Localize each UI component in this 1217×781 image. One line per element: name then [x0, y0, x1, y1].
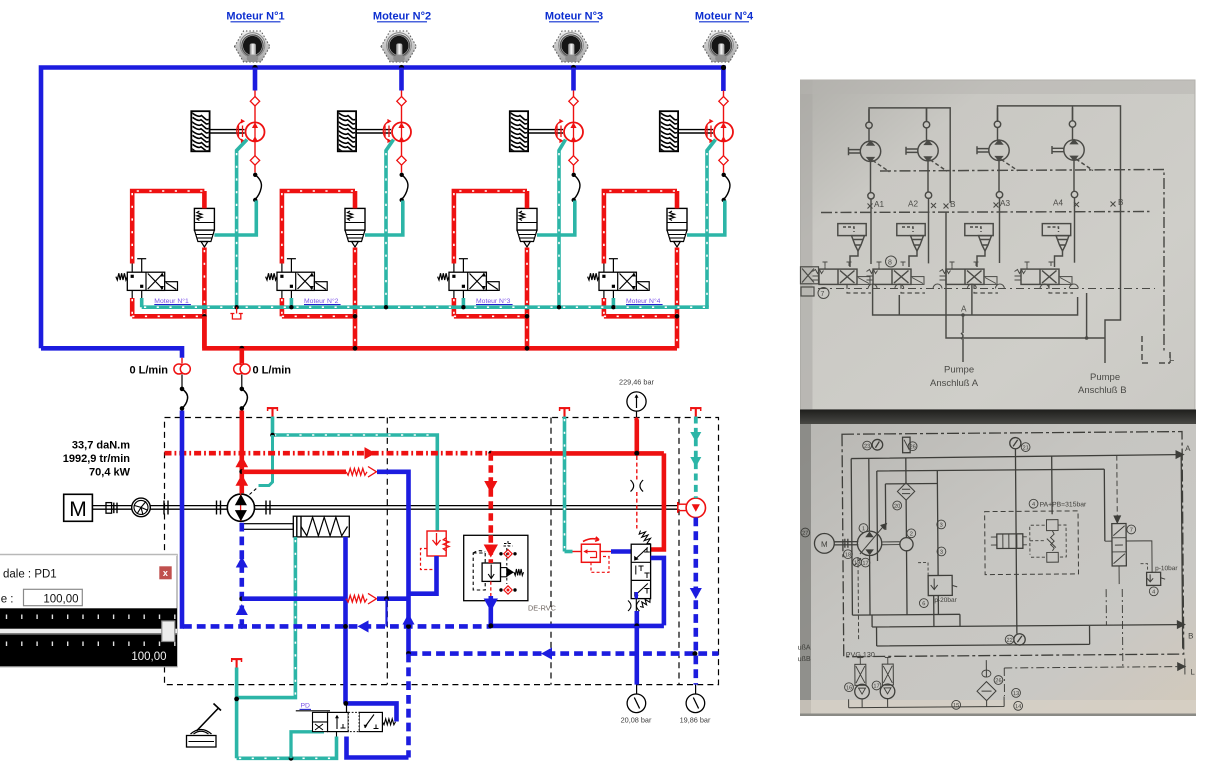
- spring check symbol 2: [346, 595, 367, 602]
- sequence valve SV1: [581, 544, 600, 562]
- hose to power unit left: [180, 387, 185, 392]
- wire red loop 2: [353, 191, 358, 208]
- node bus tap 3: [571, 65, 576, 70]
- p1 motors: [860, 141, 880, 161]
- svg-text:20: 20: [894, 504, 900, 510]
- tank symbol under teal bus: [236, 307, 238, 313]
- swivel joint 4: [722, 173, 726, 177]
- p2 right valve: [1112, 524, 1127, 567]
- wire teal return bus: [142, 305, 709, 309]
- wire blue stub 1: [253, 68, 258, 91]
- wire teal to counterbalance 1: [214, 201, 256, 236]
- hydraulic motor M2: [392, 122, 411, 141]
- svg-text:Pumpe: Pumpe: [1090, 372, 1120, 383]
- toggle switch SW3: [553, 31, 589, 62]
- wire teal pedal bottom: [237, 737, 337, 759]
- proportional valve bottom restrictor: [628, 601, 640, 612]
- tank T1: [267, 407, 278, 409]
- svg-text:M: M: [821, 540, 828, 549]
- p1 pump feeders: [961, 315, 963, 362]
- toggle switch SW2: [381, 31, 417, 62]
- flow meter FM1: [181, 358, 183, 364]
- svg-text:ußA: ußA: [798, 644, 811, 651]
- p1 top rails: [869, 106, 1121, 203]
- wire blue return dashed: [183, 624, 491, 629]
- p2 bottom pumps: [855, 664, 866, 685]
- check valve diamond top 1: [250, 97, 259, 106]
- photo 1 schematic scan: [801, 80, 1196, 410]
- svg-text:7: 7: [821, 291, 825, 298]
- proportional valve spring top: [639, 531, 650, 544]
- hydraulic motor M4: [714, 122, 733, 141]
- spring check symbol 1: [346, 468, 367, 475]
- check valve diamond top 2: [397, 97, 406, 106]
- p2 p10 valve: [1147, 572, 1161, 585]
- svg-text:Anschluß B: Anschluß B: [1078, 385, 1127, 396]
- photo 2 schematic scan: [800, 410, 1196, 425]
- wire blue stub 2: [399, 68, 404, 91]
- gauge G3 19,86 bar: [695, 685, 697, 694]
- node bus tap 2: [399, 65, 404, 70]
- wire teal motor drain 1: [237, 140, 247, 308]
- wire teal valve stub 3: [462, 298, 466, 307]
- p2 p20 valve: [928, 575, 952, 595]
- wire teal to counterbalance 4: [687, 201, 725, 236]
- svg-text:p-20bar: p-20bar: [934, 597, 957, 604]
- svg-text:A2: A2: [908, 200, 918, 209]
- wire red sequence out: [600, 551, 612, 553]
- wire blue compensator out: [488, 596, 493, 625]
- svg-text:PVG 130: PVG 130: [846, 650, 875, 659]
- svg-text:B: B: [950, 200, 956, 209]
- axle shaft 3: [528, 129, 563, 131]
- p1 texts: [818, 198, 1174, 396]
- compensator spool: [482, 563, 500, 581]
- directional valve DV3: [453, 264, 455, 299]
- svg-text:A: A: [961, 305, 967, 314]
- wire teal tank column 2: [563, 417, 567, 552]
- power unit dashed enclosure: [165, 418, 719, 685]
- tachometer: [132, 498, 151, 517]
- svg-text:23: 23: [864, 444, 870, 450]
- wire red counterbalance down 1: [202, 248, 207, 349]
- wire red counterbalance down 2: [353, 248, 358, 349]
- wire blue boost line: [242, 596, 346, 601]
- p2 center block: [985, 511, 1079, 575]
- compensator pilot diamonds: [504, 550, 512, 558]
- wire red gauge riser: [634, 420, 639, 454]
- dialog slider: [0, 608, 177, 666]
- wire blue feed left: [41, 348, 182, 358]
- dialog window Pedale PD1: [0, 555, 177, 667]
- rotation indicator 2: [384, 126, 386, 138]
- svg-text:A4: A4: [1053, 199, 1063, 208]
- wire teal valve stub 4: [612, 298, 616, 307]
- compensator block DE-RVC: [464, 535, 528, 600]
- wire red loop 4: [675, 191, 680, 208]
- svg-text:8: 8: [888, 260, 892, 267]
- wire blue relief link: [377, 472, 409, 654]
- p2 L drain dashdot: [1004, 589, 1178, 696]
- p2 rail A: [851, 455, 1177, 616]
- p1 center dashdot line: [821, 212, 1150, 213]
- svg-text:4: 4: [1032, 502, 1035, 508]
- hydraulic motor M1: [246, 122, 265, 141]
- svg-text:Pumpe: Pumpe: [944, 365, 974, 376]
- wire red compensator through: [488, 535, 493, 563]
- tank T2: [559, 407, 570, 409]
- wire blue valve drain: [635, 592, 638, 599]
- counterbalance valve CB4: [667, 208, 687, 230]
- directional valve DV1: [131, 264, 133, 299]
- wire red loop 3: [525, 191, 530, 208]
- orifice restrictor: [631, 480, 644, 492]
- rotation indicator 1: [238, 126, 240, 138]
- wire red motor feed 3: [573, 91, 575, 123]
- wire blue stub 3: [571, 68, 576, 91]
- counterbalance valve CB2: [345, 208, 365, 230]
- swivel joint 1: [253, 173, 257, 177]
- wire red to relief spring line: [242, 469, 346, 474]
- p1 B columns: [946, 202, 1121, 363]
- enclosure partition 1: [386, 418, 388, 685]
- tank T4 pedal line: [231, 658, 242, 660]
- hydraulic motor M3: [564, 122, 583, 141]
- wire blue pedal bottom: [347, 737, 409, 758]
- wire blue partition stub: [385, 599, 387, 627]
- svg-text:3: 3: [940, 550, 943, 556]
- p2 filter: [897, 483, 915, 501]
- p2 gauges top: [872, 439, 883, 450]
- blue riser arrow: [402, 614, 414, 625]
- wire blue sequence to valve: [611, 549, 631, 554]
- svg-text:A3: A3: [1000, 199, 1010, 208]
- wire blue load return dashed: [693, 518, 698, 685]
- p1 drain wavy line: [818, 288, 1155, 290]
- axle shaft 4: [678, 129, 713, 131]
- wire blue cylinder right: [343, 537, 348, 704]
- p1 collector lines: [873, 284, 1087, 338]
- p1 upper dashdot line: [880, 170, 1164, 353]
- wire blue pilot return dashed: [409, 651, 719, 656]
- svg-text:3: 3: [940, 523, 943, 529]
- wire teal valve stub 2: [290, 298, 294, 307]
- svg-text:6: 6: [922, 601, 925, 607]
- wire blue left riser: [182, 411, 184, 627]
- tank T3: [690, 407, 701, 409]
- svg-text:17: 17: [873, 684, 879, 690]
- svg-text:7: 7: [1130, 528, 1133, 534]
- wire teal pump case drain: [259, 435, 273, 486]
- wire red to valve right: [651, 453, 664, 549]
- variable pump P1: [240, 411, 245, 494]
- svg-text:A1: A1: [874, 200, 884, 209]
- axle shaft 1: [210, 129, 245, 131]
- wire teal motor drain 3: [559, 140, 566, 308]
- wire teal pilot drain: [291, 732, 324, 759]
- svg-text:Anschluß A: Anschluß A: [930, 378, 979, 389]
- wire blue return solid: [491, 624, 664, 629]
- swivel joint 2: [400, 173, 404, 177]
- wire blue riser lower dashed: [406, 654, 411, 758]
- toggle switch SW1: [235, 31, 271, 62]
- check valve diamond bottom 1: [254, 142, 256, 157]
- svg-text:4: 4: [1152, 589, 1155, 595]
- wire teal motor drain 4: [707, 140, 716, 308]
- drive shaft: [92, 505, 677, 507]
- wire red counterbalance down 3: [525, 248, 530, 349]
- svg-text:ußB: ußB: [798, 656, 811, 663]
- directional valve DV4: [603, 264, 605, 299]
- p1 left cut valve: [801, 267, 819, 296]
- wire blue supply bus: [41, 68, 726, 349]
- wire teal cylinder left: [237, 537, 296, 698]
- wire teal valve stub 1: [140, 298, 144, 307]
- svg-text:B: B: [1188, 631, 1193, 640]
- swash rod: [243, 524, 293, 530]
- shaft couplings: [106, 503, 112, 514]
- check valve diamond bottom 4: [723, 142, 725, 157]
- wire teal to counterbalance 2: [365, 201, 403, 236]
- control cylinder: [293, 516, 349, 537]
- enclosure partition 3: [678, 418, 680, 685]
- wire red motor feed 4: [723, 91, 725, 123]
- check valve diamond top 3: [569, 97, 578, 106]
- hose to power unit right: [240, 387, 245, 392]
- p1 valve assemblies: [838, 224, 866, 236]
- wire blue pump suction: [240, 523, 245, 627]
- wire blue gauge riser: [634, 626, 639, 685]
- svg-text:21: 21: [1022, 445, 1028, 451]
- p2 texts: [796, 439, 1196, 712]
- svg-text:2: 2: [910, 531, 913, 537]
- electric motor M: [64, 494, 93, 521]
- wire red compensator pilot: [488, 453, 493, 535]
- p2 border: [842, 432, 1184, 657]
- node bus tap 4: [721, 65, 726, 70]
- rotation indicator 4: [706, 126, 708, 138]
- svg-text:27: 27: [802, 531, 808, 537]
- svg-text:1: 1: [862, 526, 865, 532]
- pump drain dashdot link: [250, 488, 258, 495]
- svg-text:26: 26: [995, 678, 1001, 684]
- axle shaft 2: [356, 129, 391, 131]
- dialog close button: [159, 566, 171, 579]
- svg-text:L: L: [1190, 667, 1195, 676]
- p2 motor and pump: [814, 533, 834, 553]
- toggle switch SW4: [703, 31, 739, 62]
- relief valve RV1: [427, 531, 446, 556]
- gauge G2 20,08 bar: [636, 685, 638, 694]
- swivel joint 3: [572, 173, 576, 177]
- wire blue relief out: [409, 556, 437, 594]
- rotation indicator 3: [556, 126, 558, 138]
- counterbalance valve CB3: [517, 208, 537, 230]
- dialog input: [24, 589, 83, 605]
- sequence pilot dashed: [591, 557, 609, 573]
- wire red motor feed 2: [401, 91, 403, 123]
- svg-text:16: 16: [846, 685, 852, 691]
- svg-text:15: 15: [953, 703, 959, 709]
- wire blue valve B port: [651, 558, 664, 626]
- wire teal to counterbalance 3: [537, 201, 575, 236]
- wire teal pedal tank drop: [235, 668, 239, 759]
- svg-text:L: L: [1169, 353, 1174, 364]
- svg-text:17: 17: [862, 561, 868, 567]
- p2 verticals: [869, 447, 1183, 651]
- pedal symbol: [197, 704, 222, 732]
- wire red supply bus: [204, 316, 677, 348]
- check valve diamond bottom 3: [573, 142, 575, 157]
- check valve diamond top 4: [719, 97, 728, 106]
- svg-text:26: 26: [909, 444, 915, 450]
- proportional valve PV1: [631, 544, 650, 598]
- counterbalance valve CB1: [194, 208, 214, 230]
- directional valve DV2: [281, 264, 283, 299]
- wire red counterbalance down 4: [675, 248, 680, 349]
- svg-text:B: B: [1118, 198, 1124, 207]
- p2 bottom gauge: [1014, 634, 1025, 645]
- svg-text:22: 22: [1006, 638, 1012, 644]
- wire red motor feed 1: [254, 91, 256, 123]
- wire teal motor drain 2: [386, 140, 394, 308]
- svg-text:A: A: [1185, 444, 1191, 453]
- svg-text:p-10bar: p-10bar: [1155, 565, 1178, 572]
- wire blue pedal top link: [346, 703, 397, 721]
- p1 L bracket: [1142, 336, 1170, 363]
- svg-text:14: 14: [1015, 704, 1021, 710]
- svg-text:18: 18: [845, 552, 851, 558]
- svg-text:13: 13: [1013, 691, 1019, 697]
- load indicator motor: [678, 503, 687, 505]
- flow meter FM2: [240, 348, 245, 364]
- wire teal load feed dashed: [694, 417, 698, 499]
- svg-text:19: 19: [854, 560, 860, 566]
- svg-text:PA+PB=315bar: PA+PB=315bar: [1040, 501, 1088, 508]
- check valve diamond bottom 2: [401, 142, 403, 157]
- wire red orifice line: [636, 456, 638, 480]
- wire red loop 1: [202, 191, 207, 208]
- pedal valve PDV: [296, 710, 330, 712]
- node bus tap 1: [252, 65, 257, 70]
- wire red pressure main: [165, 451, 491, 456]
- relief pilot dashed: [421, 549, 437, 570]
- wire teal tank line to relief: [273, 417, 438, 532]
- enclosure partition 2: [550, 418, 552, 685]
